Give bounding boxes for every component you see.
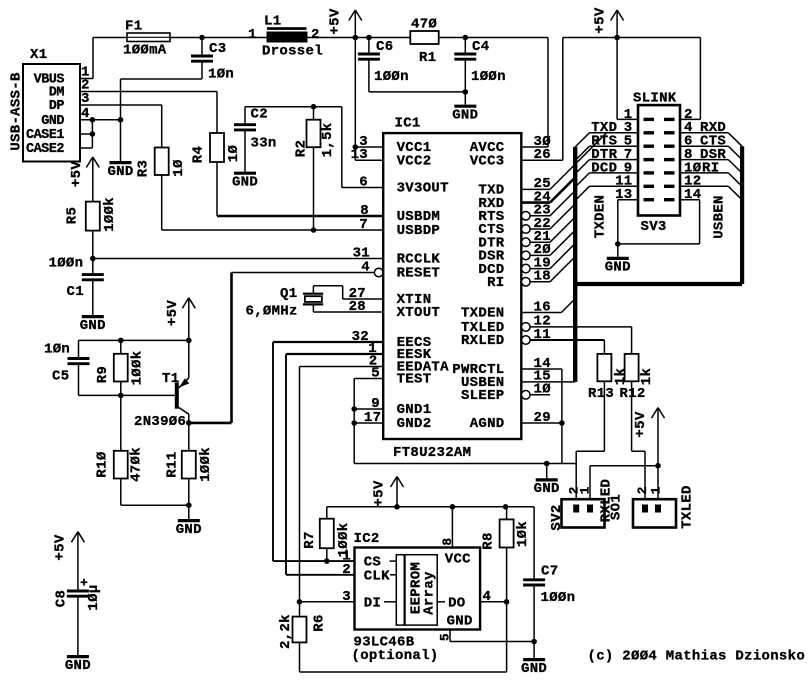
svg-text:R3: R3 [136,160,152,177]
svg-text:C3: C3 [209,41,226,57]
svg-text:R2: R2 [294,140,310,157]
svg-text:SV2: SV2 [549,504,565,530]
svg-text:3V3OUT: 3V3OUT [397,181,449,197]
svg-text:1ØØn: 1ØØn [541,590,576,606]
svg-text:1: 1 [648,486,663,494]
svg-text:GND: GND [232,174,258,190]
svg-text:GND: GND [534,481,560,497]
svg-text:CLK: CLK [364,568,390,584]
svg-text:TXLED: TXLED [680,485,696,529]
svg-text:2: 2 [311,27,320,43]
svg-text:1: 1 [248,27,257,43]
svg-text:1ØØn: 1ØØn [49,256,84,272]
svg-text:VCC3: VCC3 [470,153,505,169]
svg-text:R9: R9 [95,366,111,383]
svg-text:R6: R6 [312,614,328,631]
svg-text:USB-ASS-B: USB-ASS-B [9,72,25,151]
svg-text:4: 4 [361,259,370,275]
svg-text:F1: F1 [125,19,142,35]
svg-text:14: 14 [684,187,701,203]
svg-text:DO: DO [448,595,465,611]
svg-text:SO1: SO1 [608,494,624,520]
svg-text:IC1: IC1 [395,116,421,132]
svg-text:GND: GND [447,614,473,630]
svg-text:R5: R5 [65,207,81,224]
svg-text:+5V: +5V [593,7,609,33]
svg-text:1ØØk: 1ØØk [130,351,146,386]
svg-text:XTOUT: XTOUT [397,305,441,321]
svg-text:X1: X1 [30,47,47,63]
svg-text:GND2: GND2 [397,416,432,432]
svg-text:DI: DI [364,595,381,611]
svg-text:1ØØk: 1ØØk [102,197,118,232]
svg-text:1k: 1k [613,368,629,385]
svg-text:6: 6 [359,174,368,190]
svg-text:1ØØk: 1ØØk [198,447,214,482]
svg-text:1Øµ: 1Øµ [86,584,102,610]
svg-text:FT8U232AM: FT8U232AM [393,445,471,461]
svg-text:T1: T1 [162,371,179,387]
svg-text:1Øn: 1Øn [44,342,70,358]
svg-text:GND: GND [41,114,64,129]
svg-text:+5V: +5V [165,300,181,326]
svg-text:(optional): (optional) [352,648,439,664]
svg-text:2: 2 [342,562,351,578]
svg-text:USBEN: USBEN [712,195,728,239]
svg-text:GND: GND [107,164,133,180]
svg-text:R7: R7 [302,531,318,548]
svg-text:1,5k: 1,5k [320,123,336,158]
svg-text:RXLED: RXLED [461,333,505,349]
svg-text:SLEEP: SLEEP [461,388,505,404]
svg-text:GND: GND [521,661,547,677]
svg-text:GND: GND [605,260,631,276]
svg-text:RESET: RESET [397,266,441,282]
svg-text:C1: C1 [67,284,84,300]
svg-text:8: 8 [440,537,455,545]
svg-text:3: 3 [342,589,351,605]
svg-text:C6: C6 [376,39,393,55]
svg-text:+5V: +5V [372,480,388,506]
svg-text:VCC2: VCC2 [397,153,432,169]
svg-text:Drossel: Drossel [262,44,323,60]
svg-text:2N39Ø6: 2N39Ø6 [134,414,186,430]
svg-text:5: 5 [438,633,453,641]
svg-text:4: 4 [483,589,492,605]
svg-text:CASE2: CASE2 [26,142,64,157]
svg-text:1ØØn: 1ØØn [471,69,506,85]
svg-text:CASE1: CASE1 [26,128,64,143]
svg-text:1ØØn: 1ØØn [374,69,409,85]
svg-text:RI: RI [487,275,504,291]
svg-text:L1: L1 [264,14,281,30]
svg-text:R8: R8 [481,532,497,549]
svg-text:1: 1 [577,486,592,494]
svg-text:GND: GND [65,658,91,674]
svg-text:GND: GND [176,522,202,538]
svg-text:IC2: IC2 [354,531,380,547]
svg-text:VCC: VCC [445,551,471,567]
svg-text:AGND: AGND [470,416,505,432]
svg-text:Q1: Q1 [280,286,297,302]
svg-text:C5: C5 [52,369,69,385]
svg-text:1k: 1k [639,368,655,385]
svg-text:TEST: TEST [397,372,432,388]
svg-text:TXDEN: TXDEN [592,195,608,239]
svg-text:R4: R4 [191,146,207,163]
svg-text:DP: DP [49,99,65,114]
svg-text:R11: R11 [165,451,181,477]
svg-text:+5V: +5V [69,161,85,187]
svg-text:26: 26 [534,147,551,163]
svg-text:R12: R12 [620,386,646,402]
svg-text:GND: GND [452,107,478,123]
svg-text:C2: C2 [251,107,268,123]
svg-text:SV3: SV3 [641,219,667,235]
svg-text:R1Ø: R1Ø [95,451,111,477]
svg-text:RI: RI [702,160,719,176]
svg-text:+5V: +5V [328,8,344,34]
svg-text:C8: C8 [54,590,70,607]
svg-text:7: 7 [359,217,368,233]
svg-text:1Øk: 1Øk [515,521,531,547]
svg-text:(c) 2ØØ4 Mathias Dzionsko: (c) 2ØØ4 Mathias Dzionsko [588,649,806,665]
svg-text:C7: C7 [541,564,558,580]
svg-text:1Ø: 1Ø [171,159,187,177]
svg-text:1Øn: 1Øn [208,67,234,83]
svg-text:2,2k: 2,2k [278,614,294,649]
svg-text:GND: GND [80,318,106,334]
svg-text:R1: R1 [419,50,436,66]
svg-text:R13: R13 [588,386,614,402]
svg-text:USBDP: USBDP [397,223,441,239]
svg-text:Array: Array [422,571,438,615]
svg-text:SLINK: SLINK [633,91,677,107]
svg-text:47Ø: 47Ø [411,17,437,33]
svg-text:33n: 33n [251,136,277,152]
svg-text:6,ØMHz: 6,ØMHz [246,304,298,320]
svg-text:+5V: +5V [53,534,69,560]
svg-text:47Øk: 47Øk [129,447,145,482]
svg-text:1Ø: 1Ø [226,145,242,163]
svg-text:1ØØmA: 1ØØmA [123,43,167,59]
svg-text:C4: C4 [472,39,489,55]
svg-text:+5V: +5V [633,411,649,437]
svg-text:DCD: DCD [591,160,617,176]
